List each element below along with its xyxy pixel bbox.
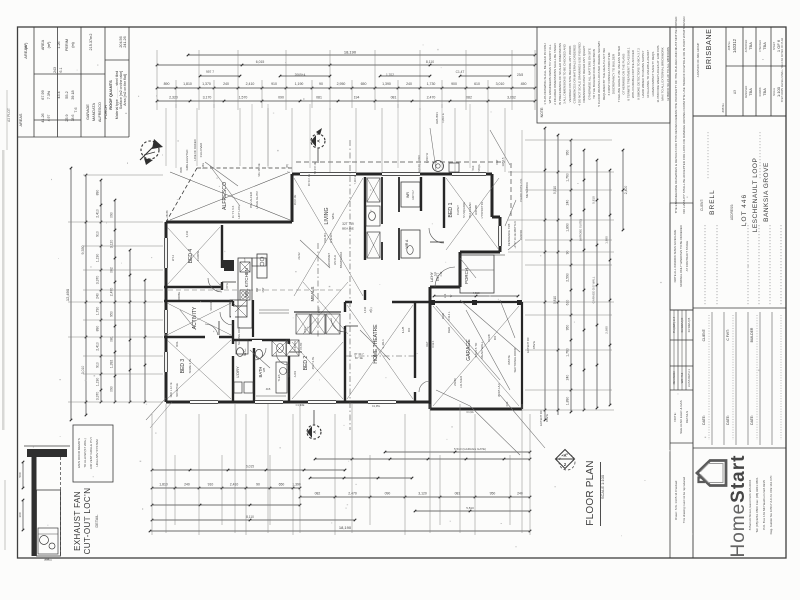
svg-text:082: 082: [466, 96, 472, 100]
svg-text:C1,9A: C1,9A: [466, 410, 473, 414]
svg-text:3,062: 3,062: [507, 96, 516, 100]
svg-text:3,120: 3,120: [110, 240, 114, 249]
svg-text:MANDATA: MANDATA: [92, 103, 96, 121]
bed2 robes: [294, 312, 341, 334]
svg-text:AREAS: AREAS: [19, 113, 23, 126]
svg-text:39/1B LA.F: 39/1B LA.F: [497, 383, 501, 397]
svg-text:2,400: 2,400: [624, 186, 628, 195]
svg-text:1,810 E: 1,810 E: [441, 113, 445, 123]
meals dash line: [317, 243, 319, 338]
svg-text:TBA: TBA: [748, 42, 753, 50]
svg-text:WNL: WNL: [331, 212, 335, 219]
svg-text:PLTR: PLTR: [299, 343, 303, 350]
svg-text:CHECKED: CHECKED: [759, 40, 762, 52]
exterior walls: [166, 174, 500, 402]
svg-text:DATE:: DATE:: [702, 415, 706, 425]
svg-text:DATE:: DATE:: [726, 415, 730, 425]
svg-text:1.26: 1.26: [57, 41, 61, 48]
svg-text:ALFRESCO: ALFRESCO: [98, 102, 102, 122]
svg-text:WR A: WR A: [405, 239, 409, 248]
svg-text:BED 3: BED 3: [180, 359, 186, 374]
svg-text:7.6: 7.6: [74, 107, 78, 112]
extra leader lines: [180, 140, 515, 430]
svg-text:1,430: 1,430: [363, 306, 367, 313]
svg-text:REVISION: REVISION: [672, 372, 676, 385]
room diagonal marks: [167, 178, 519, 406]
svg-text:2,410: 2,410: [96, 209, 100, 218]
svg-text:081: 081: [391, 96, 397, 100]
svg-text:1,190: 1,190: [96, 378, 100, 387]
svg-text:L(O.R): L(O.R): [417, 164, 421, 172]
svg-text:300: 300: [18, 512, 22, 517]
svg-text:I-41.5x924: I-41.5x924: [459, 375, 463, 388]
svg-text:910: 910: [208, 483, 214, 487]
svg-text:TO THE BUILDER FOR A DECISION: TO THE BUILDER FOR A DECISION: [592, 49, 596, 99]
svg-text:SECTIONAL DOOR: SECTIONAL DOOR: [513, 348, 517, 373]
svg-text:1,190: 1,190: [295, 82, 304, 86]
svg-text:MAX TO ALL EXTERNAL BRICKWORK: MAX TO ALL EXTERNAL BRICKWORK: [661, 47, 665, 100]
svg-text:BY 3E: BY 3E: [355, 356, 363, 360]
svg-text:BRISBANE: BRISBANE: [704, 28, 713, 69]
svg-text:EN/S DOOR MEMO’S: EN/S DOOR MEMO’S: [77, 438, 81, 468]
svg-text:240: 240: [406, 82, 412, 86]
svg-text:D&D: D&D: [441, 313, 445, 319]
section marker A top: [296, 128, 511, 218]
svg-text:PA3: PA3: [471, 165, 475, 170]
svg-text:241.26: 241.26: [123, 36, 127, 47]
svg-text:CLIENT:: CLIENT:: [700, 199, 704, 211]
svg-text:2,470: 2,470: [427, 96, 436, 100]
svg-text:1,392: 1,392: [110, 360, 114, 369]
svg-text:MEALS: MEALS: [310, 286, 315, 301]
svg-text:41B: 41B: [266, 387, 271, 391]
svg-text:VERIFIED ON SITE BEFORE ANY WO: VERIFIED ON SITE BEFORE ANY WORK: [568, 46, 572, 103]
svg-text:9 SMOKE DETECTORS TO BCA 3.7.: 9 SMOKE DETECTORS TO BCA 3.7.2: [636, 48, 640, 100]
svg-text:A: A: [563, 453, 566, 458]
svg-text:650: 650: [361, 82, 367, 86]
svg-text:GMG ELEV’TED: GMG ELEV’TED: [185, 150, 189, 171]
svg-text:LESCHENAULT LOOP: LESCHENAULT LOOP: [752, 158, 759, 233]
svg-text:21212: 21212: [297, 252, 301, 260]
svg-text:GOURMET: GOURMET: [327, 253, 331, 268]
svg-text:METERBOX: METERBOX: [525, 182, 529, 198]
svg-text:PAT: PAT: [495, 159, 499, 164]
svg-text:JOB No: JOB No: [721, 103, 725, 113]
svg-text:1,702: 1,702: [386, 73, 394, 77]
svg-text:8,110: 8,110: [246, 515, 254, 519]
svg-text:1A52.5: 1A52.5: [501, 157, 505, 166]
svg-text:610: 610: [566, 300, 570, 306]
svg-text:P.O. Box 131 Mt Hawthorn WA 69: P.O. Box 131 Mt Hawthorn WA 6915: [762, 480, 766, 530]
svg-text:997 7: 997 7: [206, 70, 214, 74]
svg-text:18,190: 18,190: [339, 525, 352, 530]
svg-text:1,570: 1,570: [239, 96, 248, 100]
svg-text:18.6: 18.6: [71, 115, 75, 122]
disclaimer text column: [670, 16, 693, 558]
svg-text:4.97: 4.97: [47, 115, 51, 122]
elec gas note: [670, 442, 693, 444]
svg-text:1,890: 1,890: [566, 397, 570, 406]
svg-text:240: 240: [566, 375, 570, 381]
svg-text:3,370: 3,370: [96, 392, 100, 401]
door arcs: [205, 228, 455, 392]
svg-text:MG 157.3E: MG 157.3E: [257, 163, 261, 176]
svg-text:5,510 (GARAGE GATE): 5,510 (GARAGE GATE): [454, 447, 486, 451]
windows: [164, 172, 502, 404]
bath fixtures: [234, 341, 287, 396]
svg-text:1,730: 1,730: [427, 82, 436, 86]
svg-text:CLIENT:: CLIENT:: [702, 329, 706, 342]
extra top extension lines: [166, 104, 522, 300]
svg-text:BED 2: BED 2: [303, 356, 309, 371]
svg-text:BANKSIA GROVE: BANKSIA GROVE: [763, 162, 770, 222]
svg-text:BUILDER: BUILDER: [750, 327, 754, 342]
svg-text:PORCH: PORCH: [464, 268, 469, 284]
svg-text:910: 910: [271, 82, 277, 86]
svg-text:Tel: (08) 9261 0800 Fax: (0: Tel: (08) 9261 0800 Fax: (08) 9261 0801: [755, 477, 759, 533]
svg-text:4,810: 4,810: [473, 291, 480, 295]
svg-text:A/PROVED: A/PROVED: [745, 40, 748, 53]
garage leaders bottom right: [470, 395, 549, 455]
svg-text:AS PLA: AS PLA: [333, 255, 337, 265]
svg-text:03 SWAJ) B: 03 SWAJ) B: [687, 318, 691, 333]
wc shower cluster: [236, 340, 299, 356]
svg-text:2065+4: 2065+4: [295, 73, 306, 77]
svg-text:3,010: 3,010: [496, 82, 505, 86]
svg-text:B/12: B/12: [303, 327, 307, 333]
right dimensions: [508, 127, 628, 422]
exhaust fan labels: [73, 425, 113, 554]
svg-text:1,-99-1: 1,-99-1: [381, 339, 385, 349]
svg-text:Sh SQUARE: Sh SQUARE: [462, 202, 466, 218]
svg-text:NOMINAL ONLY WINDOWS TO BE OR: NOMINAL ONLY WINDOWS TO BE ORDERED: [679, 225, 683, 287]
door openings: [205, 228, 457, 356]
svg-text:6,015: 6,015: [246, 465, 254, 469]
svg-text:243: 243: [53, 67, 57, 73]
svg-text:RESIDENCE 73/5: RESIDENCE 73/5: [507, 223, 511, 246]
svg-text:NO LIABILITY SHALL BE ACCEPTED: NO LIABILITY SHALL BE ACCEPTED FOR LOSS …: [682, 16, 686, 214]
svg-text:43.4: 43.4: [57, 91, 61, 98]
leader lines: [205, 128, 520, 390]
svg-text:TLES: TLES: [277, 374, 281, 381]
svg-text:W/F 7A5: W/F 7A5: [680, 372, 684, 383]
svg-text:890: 890: [96, 326, 100, 332]
svg-text:LINE OF RAKED: LINE OF RAKED: [193, 139, 197, 160]
svg-text:25.9: 25.9: [65, 114, 69, 121]
svg-text:SCALE: SCALE: [773, 88, 776, 96]
svg-text:NOTE:: NOTE:: [673, 412, 677, 421]
svg-text:AWL/B21: AWL/B21: [435, 112, 439, 124]
svg-text:DETAILS: DETAILS: [685, 411, 689, 423]
svg-text:950: 950: [566, 150, 570, 156]
svg-text:5 FLOOR WASTES LOCATED WHERE: 5 FLOOR WASTES LOCATED WHERE SHOWN: [597, 41, 601, 106]
svg-text:C12: C12: [439, 271, 443, 276]
svg-text:MW: MW: [261, 287, 265, 292]
svg-text:DET: DET: [425, 341, 429, 347]
svg-text:DETAIL: DETAIL: [95, 514, 99, 527]
svg-text:SLIDING DRS: SLIDING DRS: [237, 327, 241, 345]
svg-text:TILES: TILES: [287, 370, 291, 377]
bottom dimensions: [149, 414, 532, 535]
svg-text:PH (W/F) C-4: PH (W/F) C-4: [672, 316, 676, 333]
svg-text:900: 900: [451, 82, 457, 86]
detail marker A/2: [556, 450, 576, 471]
svg-text:7.3%: 7.3%: [47, 90, 51, 99]
robes and wir fixtures: [365, 161, 459, 303]
svg-text:6 FIRST CONSULTATION ITEM: 6 FIRST CONSULTATION ITEM: [607, 52, 611, 95]
notes box: [537, 27, 670, 123]
svg-text:081: 081: [316, 96, 322, 100]
svg-text:1 OF 6: 1 OF 6: [776, 39, 781, 52]
svg-text:SDOOR: SDOOR: [209, 301, 213, 311]
svg-text:2,950: 2,950: [337, 82, 346, 86]
svg-text:950: 950: [110, 311, 114, 317]
svg-text:2,320: 2,320: [169, 96, 178, 100]
corner leaders: [146, 398, 474, 428]
svg-text:ILL/B: ILL/B: [401, 327, 405, 334]
svg-text:Reg. builder No 10517 A.C.N: Reg. builder No 10517 A.C.N. 009 161 070: [769, 475, 773, 534]
svg-text:WASTE: WASTE: [507, 355, 511, 365]
svg-text:1,890: 1,890: [566, 223, 570, 232]
svg-text:XXL/B: XXL/B: [487, 334, 491, 342]
svg-text:12,490: 12,490: [65, 288, 70, 301]
svg-text:2,410: 2,410: [96, 342, 100, 351]
svg-text:18,190: 18,190: [344, 50, 357, 55]
svg-text:AREA: AREA: [41, 39, 45, 50]
svg-text:090: 090: [385, 492, 391, 496]
svg-text:C FWT:: C FWT:: [726, 329, 730, 340]
svg-text:BED 4: BED 4: [188, 249, 194, 264]
svg-text:CAPET: CAPET: [456, 205, 460, 215]
svg-text:23/8: 23/8: [517, 73, 523, 77]
plan annotations: [177, 112, 536, 397]
svg-text:AIRY 6.7: AIRY 6.7: [412, 190, 415, 200]
svg-text:REAR WALL: REAR WALL: [480, 341, 484, 359]
svg-text:MOVE/TILE: MOVE/TILE: [175, 383, 179, 397]
svg-text:CASS DETH 1: CASS DETH 1: [687, 369, 691, 387]
svg-text:1,730: 1,730: [96, 307, 100, 316]
svg-text:ROBE: ROBE: [177, 292, 181, 301]
svg-text:EXHAUST FAN: EXHAUST FAN: [73, 491, 82, 551]
svg-text:11 PROVIDE WEEP HOLES AT 1200: 11 PROVIDE WEEP HOLES AT 1200 CRS: [656, 46, 660, 103]
svg-text:L*POS/CTRL: L*POS/CTRL: [480, 201, 484, 218]
svg-text:GARAGE: GARAGE: [86, 104, 90, 120]
svg-text:AT CONTRACT STAGE: AT CONTRACT STAGE: [685, 241, 689, 272]
svg-text:3 ALL DIMENSIONS TO BE CHECKE: 3 ALL DIMENSIONS TO BE CHECKED AND: [563, 43, 567, 103]
left dimensions: [65, 167, 163, 422]
svg-text:1,760: 1,760: [566, 348, 570, 357]
svg-text:AWL KITCHEN: AWL KITCHEN: [244, 268, 249, 298]
svg-text:215.37m2: 215.37m2: [89, 34, 93, 51]
svg-text:CLG OVER: CLG OVER: [199, 143, 203, 157]
svg-text:7 CEILING HEIGHT 28c UNLESS N: 7 CEILING HEIGHT 28c UNLESS NOTED: [617, 45, 621, 102]
svg-text:BAR/PERRA: BAR/PERRA: [339, 252, 343, 268]
svg-text:W 12: W 12: [171, 254, 175, 261]
svg-text:LIVING: LIVING: [324, 207, 330, 224]
homestart logo house icon: [697, 461, 726, 486]
svg-text:194: 194: [354, 96, 360, 100]
svg-text:081: 081: [455, 492, 461, 496]
svg-text:1,390: 1,390: [292, 483, 301, 487]
svg-text:STEP DOWN REVEALS/WALL YIELD A: STEP DOWN REVEALS/WALL YIELD AS NOTED ON…: [781, 37, 784, 102]
svg-text:(L)ESPI: (L)ESPI: [329, 233, 333, 243]
svg-text:240: 240: [96, 293, 100, 299]
svg-text:CUT-OUT LOC’N: CUT-OUT LOC’N: [83, 488, 92, 555]
svg-text:BULKHEAD: BULKHEAD: [468, 202, 472, 217]
svg-text:1:100: 1:100: [776, 86, 781, 97]
svg-text:20x10: 20x10: [453, 378, 457, 386]
svg-text:1,810: 1,810: [183, 82, 192, 86]
svg-text:A-W1: A-W1: [293, 370, 297, 377]
garage gate dim: [433, 291, 520, 297]
svg-text:Drawn: S.W. 14.05.14 Check: Drawn: S.W. 14.05.14 Checked:: [674, 480, 678, 520]
svg-text:1,190: 1,190: [96, 254, 100, 263]
signature block: [693, 308, 786, 448]
svg-text:TBA: TBA: [762, 42, 767, 50]
svg-text:PAV’G: PAV’G: [545, 414, 549, 422]
svg-text:240: 240: [566, 200, 570, 206]
svg-text:3,170: 3,170: [203, 96, 212, 100]
svg-text:OTHERWISE ALL MATTERS ON SITE: OTHERWISE ALL MATTERS ON SITE: [587, 48, 591, 100]
svg-text:8,110: 8,110: [426, 60, 434, 64]
svg-text:900: 900: [493, 335, 497, 340]
garage walls: [430, 300, 522, 409]
svg-text:2,470: 2,470: [110, 288, 114, 297]
svg-text:1,370: 1,370: [202, 82, 211, 86]
svg-text:5,810: 5,810: [592, 196, 596, 204]
svg-text:5,810: 5,810: [466, 506, 474, 510]
client address block: [700, 132, 781, 305]
svg-text:1200 L 12.7E: 1200 L 12.7E: [169, 382, 173, 398]
svg-text:WITH DURABLE NOTICE AFFIXED: WITH DURABLE NOTICE AFFIXED: [631, 49, 635, 98]
title block BRISBANE: [696, 28, 725, 112]
svg-text:GARAGE O/S WALL: GARAGE O/S WALL: [592, 276, 596, 303]
svg-text:DISCREPANCY TO BUILDER: DISCREPANCY TO BUILDER: [612, 53, 616, 94]
svg-text:D12.1: D12.1: [431, 340, 435, 347]
svg-text:C1,93E: C1,93E: [296, 403, 305, 407]
svg-text:PERIM: PERIM: [65, 39, 69, 51]
svg-text:6.1: 6.1: [59, 68, 63, 73]
svg-text:D&D: D&D: [447, 326, 451, 333]
svg-text:950: 950: [490, 492, 496, 496]
svg-text:9,350: 9,350: [81, 246, 85, 255]
svg-text:TO ALLOW (ST 200+): TO ALLOW (ST 200+): [83, 438, 87, 467]
svg-text:3,370: 3,370: [96, 276, 100, 285]
revision table: [670, 309, 693, 311]
svg-text:140312: 140312: [732, 38, 737, 53]
floor plan title: [585, 460, 605, 526]
dashed ceiling lines: [168, 176, 414, 400]
svg-text:900L: 900L: [175, 341, 179, 347]
svg-text:950: 950: [566, 325, 570, 331]
svg-text:DIMENSIONS ONLY REFER ANY QUE: DIMENSIONS ONLY REFER ANY QUERY: [582, 46, 586, 103]
svg-text:10 GLAZING TO AS1288 & AS2047: 10 GLAZING TO AS1288 & AS2047: [646, 50, 650, 98]
svg-text:HOT LOC: HOT LOC: [237, 205, 241, 219]
svg-text:3ENOIR: 3ENOIR: [519, 230, 523, 240]
svg-text:3,010: 3,010: [81, 366, 85, 375]
svg-text:(m²): (m²): [24, 43, 28, 50]
svg-text:90: 90: [256, 483, 260, 487]
svg-text:900: 900: [407, 327, 411, 332]
porch: [460, 255, 505, 293]
svg-text:5,810: 5,810: [553, 296, 557, 304]
svg-text:500: 500: [18, 472, 22, 477]
svg-text:55.2: 55.2: [65, 91, 69, 98]
svg-text:This drawing must not be repro: This drawing must not be reproduced: [682, 476, 686, 523]
svg-text:2,470: 2,470: [348, 492, 357, 496]
svg-text:1,390: 1,390: [382, 82, 391, 86]
svg-text:41.26: 41.26: [41, 113, 45, 122]
svg-text:4 DO NOT SCALE DRAWINGS USE: 4 DO NOT SCALE DRAWINGS USE FIGURED: [578, 41, 582, 105]
svg-text:090: 090: [278, 96, 284, 100]
svg-text:GMG: GMG: [201, 163, 205, 169]
svg-text:EXTENT OF: EXTENT OF: [526, 337, 530, 353]
svg-text:HAVE GHTR: HAVE GHTR: [255, 191, 259, 209]
svg-text:L’DRY: L’DRY: [235, 366, 240, 378]
svg-text:NOTE ALL WINDOW SIZES GIVEN: NOTE ALL WINDOW SIZES GIVEN ARE: [673, 230, 677, 283]
svg-text:WR: WR: [406, 192, 410, 198]
mid dim row segments: [199, 75, 512, 78]
svg-text:Area [m2 on the flat]: Area [m2 on the flat]: [123, 74, 127, 106]
svg-text:344: 344: [45, 557, 50, 561]
svg-text:ROOF QUANTS: ROOF QUANTS: [108, 80, 113, 110]
kitchen fixtures: [230, 254, 289, 337]
svg-text:(B): (B): [285, 164, 289, 168]
svg-text:1,810 W: 1,810 W: [425, 152, 429, 163]
section marker A bottom: [307, 410, 321, 439]
svg-text:THE ENGINEERING DRAWINGS & DET: THE ENGINEERING DRAWINGS & DETAILS FOR T…: [674, 16, 678, 214]
svg-text:450: 450: [521, 82, 527, 86]
svg-text:SOME 3.7E: SOME 3.7E: [188, 358, 192, 373]
svg-text:(m²): (m²): [47, 42, 51, 49]
svg-text:AIR VENT GRILLE P’LY: AIR VENT GRILLE P’LY: [89, 437, 93, 469]
svg-text:03 SWAJ) R: 03 SWAJ) R: [680, 318, 684, 333]
svg-text:VBQA: VBQA: [477, 164, 481, 171]
svg-text:IN PREFERENCE OF SCALED DIMENS: IN PREFERENCE OF SCALED DIMENSIONS: [558, 43, 562, 105]
svg-text:LOT 446: LOT 446: [741, 194, 748, 226]
svg-text:3,120: 3,120: [418, 492, 427, 496]
svg-text:BATH: BATH: [258, 367, 263, 378]
svg-text:COMMENCES OR MATERIALS ORDERED: COMMENCES OR MATERIALS ORDERED: [572, 44, 576, 103]
svg-text:90: 90: [319, 82, 323, 86]
svg-text:910: 910: [96, 362, 100, 368]
svg-text:090: 090: [110, 212, 114, 218]
svg-text:PTY: PTY: [243, 257, 247, 262]
svg-text:FLOOR PLAN: FLOOR PLAN: [585, 460, 596, 525]
svg-text:45x7 3.7E: 45x7 3.7E: [311, 357, 315, 370]
svg-text:TBA: TBA: [748, 88, 753, 96]
svg-text:2,690: 2,690: [605, 326, 609, 334]
svg-text:C13.4 L: C13.4 L: [447, 311, 451, 321]
svg-text:5.5x5.5 TO: 5.5x5.5 TO: [474, 342, 478, 357]
svg-text:A3: A3: [733, 90, 737, 94]
svg-text:11 Y1 6.6: 11 Y1 6.6: [231, 205, 235, 218]
scan speckle: [33, 45, 764, 548]
north arrow: [140, 139, 163, 165]
svg-text:PA/I: PA/I: [417, 155, 421, 160]
svg-text:BRELL: BRELL: [709, 189, 716, 215]
svg-text:2,590: 2,590: [566, 273, 570, 282]
svg-text:REQUIRED BY THE HEALTH ACT WA: REQUIRED BY THE HEALTH ACT WA: [602, 48, 606, 100]
svg-text:7,110 E: 7,110 E: [353, 175, 357, 184]
svg-text:BED 1: BED 1: [448, 202, 454, 217]
svg-text:S.K: S.K: [433, 272, 437, 276]
svg-text:HUMAN IMPACT SAFETY REQS: HUMAN IMPACT SAFETY REQS: [651, 52, 655, 97]
svg-text:2,410: 2,410: [230, 483, 239, 487]
svg-text:90: 90: [566, 251, 570, 255]
svg-text:C1,4T: C1,4T: [456, 70, 465, 74]
svg-text:DRAWN: DRAWN: [759, 87, 762, 96]
